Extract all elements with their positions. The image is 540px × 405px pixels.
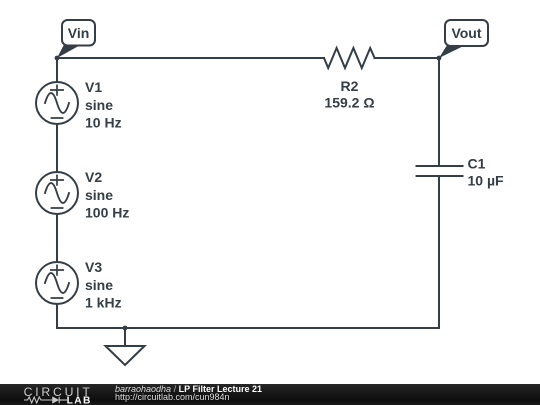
node flag Vout xyxy=(439,20,488,58)
svg-text:100 Hz: 100 Hz xyxy=(85,204,129,220)
node flag Vin xyxy=(57,20,95,58)
wire: R2 right terminal to Vout node xyxy=(375,57,439,59)
resistor R2 xyxy=(324,48,375,68)
junction dot at ground rail xyxy=(123,326,128,331)
voltage source V1 xyxy=(36,82,78,124)
svg-text:10 Hz: 10 Hz xyxy=(85,114,122,130)
svg-text:sine: sine xyxy=(85,277,113,293)
footer title text xyxy=(115,386,262,402)
svg-text:sine: sine xyxy=(85,187,113,203)
wire: bottom ground rail xyxy=(57,327,439,329)
footer bar xyxy=(0,384,540,405)
voltage source V2 xyxy=(36,172,78,214)
svg-text:sine: sine xyxy=(85,97,113,113)
capacitor C1 xyxy=(417,166,463,176)
svg-text:1 kHz: 1 kHz xyxy=(85,294,122,310)
svg-text:V3: V3 xyxy=(85,259,102,275)
svg-text:C1: C1 xyxy=(468,155,486,171)
svg-text:Vin: Vin xyxy=(68,25,90,41)
wire: Vin node to R2 left terminal xyxy=(57,57,324,59)
junction dot at Vout node xyxy=(437,56,442,61)
svg-text:V2: V2 xyxy=(85,169,102,185)
svg-text:LAB: LAB xyxy=(67,395,92,405)
junction dot at Vin node xyxy=(55,56,60,61)
wire: left rail from Vin node down to bottom rail xyxy=(56,58,58,328)
svg-text:Vout: Vout xyxy=(451,25,481,41)
svg-text:R2: R2 xyxy=(341,78,359,94)
ground xyxy=(106,328,145,365)
svg-text:10 µF: 10 µF xyxy=(468,173,505,189)
wire: Vout node down to C1 top plate xyxy=(438,58,440,166)
wire: C1 bottom plate down to bottom rail xyxy=(438,176,440,328)
voltage source V3 xyxy=(36,262,78,304)
CircuitLab logo xyxy=(0,384,100,405)
svg-text:159.2 Ω: 159.2 Ω xyxy=(324,95,374,111)
svg-text:V1: V1 xyxy=(85,79,102,95)
